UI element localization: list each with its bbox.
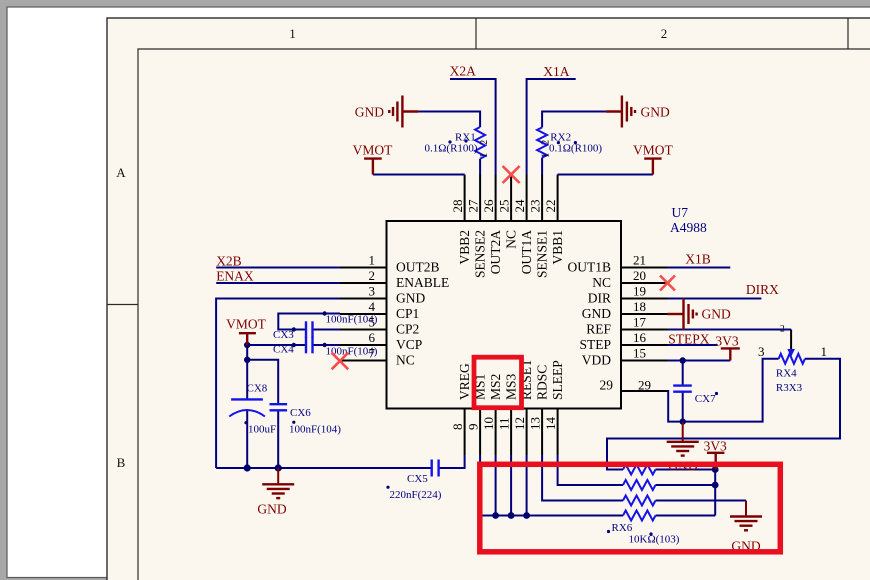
svg-text:CP1: CP1 [396, 306, 419, 321]
wire VMOT right to pin 22 [558, 174, 653, 176]
wire CX4 right to pin 6 [313, 344, 341, 346]
wire pin 12 down [526, 455, 528, 516]
svg-text:NC: NC [592, 275, 611, 290]
svg-text:A: A [116, 165, 126, 180]
svg-text:OUT2A: OUT2A [488, 230, 503, 274]
node RX6 row4 pin10 [492, 512, 499, 519]
wire pin 9 down to RX6 row4 [480, 455, 623, 516]
svg-text:CP2: CP2 [396, 322, 419, 337]
svg-text:220nF(224): 220nF(224) [390, 489, 442, 501]
svg-text:16: 16 [633, 330, 647, 345]
wire 3V3 rail vertical [714, 470, 716, 516]
U7 left pin names [396, 260, 449, 368]
svg-text:8: 8 [450, 424, 465, 431]
svg-text:26: 26 [481, 199, 496, 213]
U7 top pin names (rotated) [457, 230, 565, 278]
wire X1A label down to pin 24 [527, 79, 576, 175]
resistor RX2 0.1R sense [537, 127, 547, 157]
U7 top pin stubs 28-22 [465, 175, 558, 222]
wire pin 11 down [510, 455, 512, 516]
wire RX4 pin3 to gnd node [683, 359, 779, 422]
svg-text:15: 15 [633, 346, 646, 361]
svg-text:10KΩ(103): 10KΩ(103) [629, 534, 680, 546]
ground GND top-left (sideways) [389, 96, 418, 128]
node VMOT/CX4 junction [244, 342, 250, 348]
wire pin 17 REF to RX4 wiper [668, 329, 792, 331]
ground GND mid (under CX7, earth) [667, 422, 699, 456]
resistor network RX6 row3 [623, 496, 655, 506]
wire RX6 row3 right to GND [656, 500, 747, 502]
svg-text:R3X3: R3X3 [776, 382, 803, 394]
svg-text:27: 27 [466, 199, 481, 213]
svg-text:3V3: 3V3 [715, 333, 738, 348]
svg-text:X2B: X2B [216, 254, 242, 269]
svg-text:11: 11 [497, 417, 512, 430]
wire RX6 row1 right to 3V3 rail [656, 469, 716, 471]
svg-text:RX4: RX4 [776, 368, 797, 380]
resistor RX1 0.1R sense [475, 127, 485, 159]
op-amp U7 body (A4988 driver IC rectangle) [387, 221, 622, 409]
svg-text:14: 14 [543, 417, 558, 431]
svg-text:GND: GND [582, 306, 611, 321]
svg-text:100nF(104): 100nF(104) [289, 424, 341, 436]
svg-text:OUT2B: OUT2B [396, 260, 440, 275]
wire CX5 to pin 8 [439, 455, 465, 468]
ground GND top-right (sideways mirrored) [606, 96, 635, 128]
node 3V3 rail row1 [712, 466, 719, 473]
svg-text:B: B [117, 455, 126, 470]
wire VMOT node down [246, 345, 248, 399]
svg-text:MS3: MS3 [503, 373, 518, 400]
svg-text:28: 28 [450, 200, 465, 213]
wire pin 4 loop to CX3 [278, 314, 340, 330]
svg-text:2: 2 [661, 26, 668, 41]
svg-text:2: 2 [780, 325, 785, 335]
svg-text:9: 9 [466, 424, 481, 431]
svg-text:0.1Ω(R100): 0.1Ω(R100) [549, 143, 602, 155]
svg-text:U7: U7 [672, 205, 689, 220]
svg-text:4: 4 [369, 299, 376, 314]
U7 bottom pin stubs 8-14 [465, 409, 558, 456]
svg-text:3: 3 [758, 344, 765, 359]
svg-text:ENAX: ENAX [216, 269, 254, 284]
svg-text:X1B: X1B [685, 252, 711, 267]
column divider right [847, 18, 849, 49]
svg-text:1: 1 [369, 253, 376, 268]
svg-text:DIRX: DIRX [746, 282, 779, 297]
svg-text:1: 1 [541, 153, 552, 158]
svg-text:CX5: CX5 [407, 473, 428, 485]
ground GND bottom-left (earth) [262, 468, 294, 498]
capacitor CX6 [270, 404, 288, 410]
svg-text:20: 20 [633, 268, 646, 283]
wire CX3 right to pin 5 [313, 329, 341, 331]
svg-text:0.1Ω(R100): 0.1Ω(R100) [425, 143, 478, 155]
svg-text:1: 1 [479, 153, 490, 158]
svg-text:6: 6 [369, 330, 376, 345]
wire pin 15 VDD to 3V3 [668, 360, 731, 362]
svg-text:22: 22 [543, 200, 558, 213]
node VDD/CX7 junction [680, 357, 686, 363]
node 3V3 rail row2 [712, 482, 719, 489]
svg-text:A4988: A4988 [670, 220, 707, 235]
svg-text:25: 25 [497, 200, 512, 213]
wire X2B label to pin 1 [216, 267, 340, 269]
svg-text:2: 2 [479, 140, 490, 145]
svg-text:GND: GND [355, 105, 384, 120]
svg-text:19: 19 [633, 284, 646, 299]
svg-text:GND: GND [396, 291, 425, 306]
svg-text:OUT1A: OUT1A [519, 230, 534, 274]
resistor network RX6 row2 [623, 480, 655, 490]
svg-text:24: 24 [512, 199, 527, 213]
svg-text:12: 12 [512, 417, 527, 430]
svg-text:2: 2 [369, 268, 376, 283]
U7 top pin numbers (rotated) [450, 199, 558, 213]
svg-text:X2A: X2A [450, 64, 476, 79]
wire RX2 top to GND right [542, 112, 606, 128]
highlight box RX6 network [480, 464, 781, 552]
svg-text:DIR: DIR [588, 291, 611, 306]
svg-text:REF: REF [586, 322, 611, 337]
no-connect X pin 25 [503, 166, 520, 183]
svg-text:13: 13 [528, 417, 543, 430]
wire VDD node to CX7 top [682, 361, 684, 386]
resistor network RX6 row1 [623, 465, 655, 475]
svg-text:23: 23 [528, 200, 543, 213]
svg-text:VMOT: VMOT [353, 143, 394, 158]
svg-text:VBB1: VBB1 [550, 230, 565, 265]
wire pin 13 down to RX6 row3 [542, 455, 623, 501]
svg-text:10: 10 [481, 417, 496, 430]
node CX4 right dot [322, 343, 326, 347]
ground GND pin 18 (sideways) [668, 298, 697, 330]
svg-text:RDSC: RDSC [534, 365, 549, 400]
node ground bus CX8 [244, 464, 251, 471]
wire pin 3 GND run down-left [216, 299, 340, 469]
node RX6 row4 pin12 [523, 512, 530, 519]
svg-text:STEPX: STEPX [668, 332, 710, 347]
capacitor CX5 220nF [432, 460, 439, 477]
node CX4 left dot [292, 343, 296, 347]
node ground bus CX6 [275, 464, 282, 471]
svg-text:VREG: VREG [457, 363, 472, 400]
svg-text:SENSE2: SENSE2 [472, 230, 487, 278]
wire RX6 row2 right to rail [656, 484, 716, 486]
U7 bottom pin numbers (rotated) [450, 417, 558, 431]
svg-text:100uF: 100uF [248, 424, 276, 436]
svg-text:NC: NC [396, 353, 415, 368]
resistor network RX6 row4 [623, 511, 655, 521]
capacitor CX7 [673, 386, 692, 392]
wire pin 10 down [495, 455, 497, 516]
svg-text:CX4: CX4 [273, 344, 294, 356]
svg-text:1: 1 [289, 26, 296, 41]
svg-text:29: 29 [638, 378, 651, 393]
inner frame [138, 49, 870, 580]
U7 left pin stubs 1-7 [340, 268, 387, 361]
svg-text:STEP: STEP [579, 337, 611, 352]
U7 left pin numbers [369, 253, 376, 361]
wire CX7 bottom to gnd node [682, 392, 684, 422]
row divider A/B [107, 304, 138, 306]
svg-text:VMOT: VMOT [633, 143, 674, 158]
wire pin 16 to STEPX label [668, 344, 718, 346]
svg-text:1: 1 [821, 344, 828, 359]
capacitor CX4 [306, 337, 313, 354]
svg-text:17: 17 [633, 315, 647, 330]
svg-text:X1A: X1A [543, 64, 569, 79]
wire pin 19 to DIRX label [668, 298, 762, 300]
node VMOT/CX6 junction [244, 357, 250, 363]
U7 right pin names [568, 260, 614, 393]
wire pin 29 down to gnd node [668, 391, 683, 422]
wire pin 14 down to RX6 row2 [558, 455, 623, 485]
svg-text:29: 29 [600, 378, 614, 393]
no-connect X pin 20 [660, 276, 675, 291]
svg-text:VBB2: VBB2 [457, 230, 472, 265]
svg-text:CX8: CX8 [247, 383, 268, 395]
wire bottom ground bus [216, 467, 432, 469]
ground GND bottom-right (earth) [730, 501, 762, 531]
node CX3 left dot [292, 327, 296, 331]
no-connect X pin 7 [332, 353, 349, 370]
wire ENAX label to pin 2 [216, 282, 340, 284]
wire RX4 pin1 loop to RX6 row1 [607, 359, 840, 470]
node CX7 bottom junction [680, 418, 686, 424]
wire RX2 bottom to pin 23 [541, 158, 543, 175]
node CP1 wire dot [322, 311, 326, 315]
svg-text:2: 2 [541, 140, 552, 145]
wire CX6 bottom to ground bus [277, 410, 279, 468]
wire node to CX6 branch [247, 360, 278, 404]
tiny label marker dots [244, 139, 718, 535]
svg-text:18: 18 [633, 299, 646, 314]
svg-text:21: 21 [633, 253, 646, 268]
U7 right pin stubs 21-15 and 29 [621, 268, 668, 392]
svg-text:CX7: CX7 [695, 393, 716, 405]
wire VMOT left to pin 28 [373, 174, 465, 176]
svg-text:GND: GND [257, 502, 286, 517]
svg-text:NC: NC [503, 230, 518, 249]
node RX6 row4 pin11 [508, 512, 515, 519]
wire RX1 bottom to pin 27 [479, 159, 481, 175]
svg-text:CX6: CX6 [290, 407, 311, 419]
wire pin 21 to X1B label [668, 267, 731, 269]
U7 right pin numbers [633, 253, 651, 393]
svg-text:3: 3 [369, 284, 376, 299]
svg-text:VMOT: VMOT [226, 317, 267, 332]
svg-text:VCP: VCP [396, 337, 422, 352]
wire CX8 bottom to ground bus [246, 411, 248, 468]
svg-text:ENABLE: ENABLE [396, 275, 449, 290]
column divider 1|2 [475, 18, 477, 49]
capacitor CX3 [306, 321, 313, 338]
svg-text:VDD: VDD [582, 353, 611, 368]
wire VMOT node to CX4 left [247, 344, 305, 346]
capacitor CX8 electrolytic 100uF [231, 398, 263, 400]
svg-text:3V3: 3V3 [704, 439, 727, 454]
svg-text:100nF(104): 100nF(104) [326, 314, 378, 326]
svg-text:RX6: RX6 [612, 522, 633, 534]
svg-text:SENSE1: SENSE1 [534, 230, 549, 278]
svg-text:CX3: CX3 [273, 329, 294, 341]
wire RX6 row4 right to rail [656, 515, 716, 517]
svg-text:SLEEP: SLEEP [550, 360, 565, 400]
wire X2A label down to pin 26 [450, 79, 496, 175]
wire GND left to RX1 top [418, 112, 480, 128]
potentiometer RX4 R3X3 [779, 354, 805, 364]
svg-text:GND: GND [702, 307, 731, 322]
U7 bottom pin names (rotated) [457, 358, 565, 400]
highlight box MS1-MS3 [474, 357, 522, 408]
svg-text:MS2: MS2 [488, 374, 503, 400]
svg-text:OUT1B: OUT1B [568, 260, 612, 275]
svg-text:GND: GND [641, 105, 670, 120]
